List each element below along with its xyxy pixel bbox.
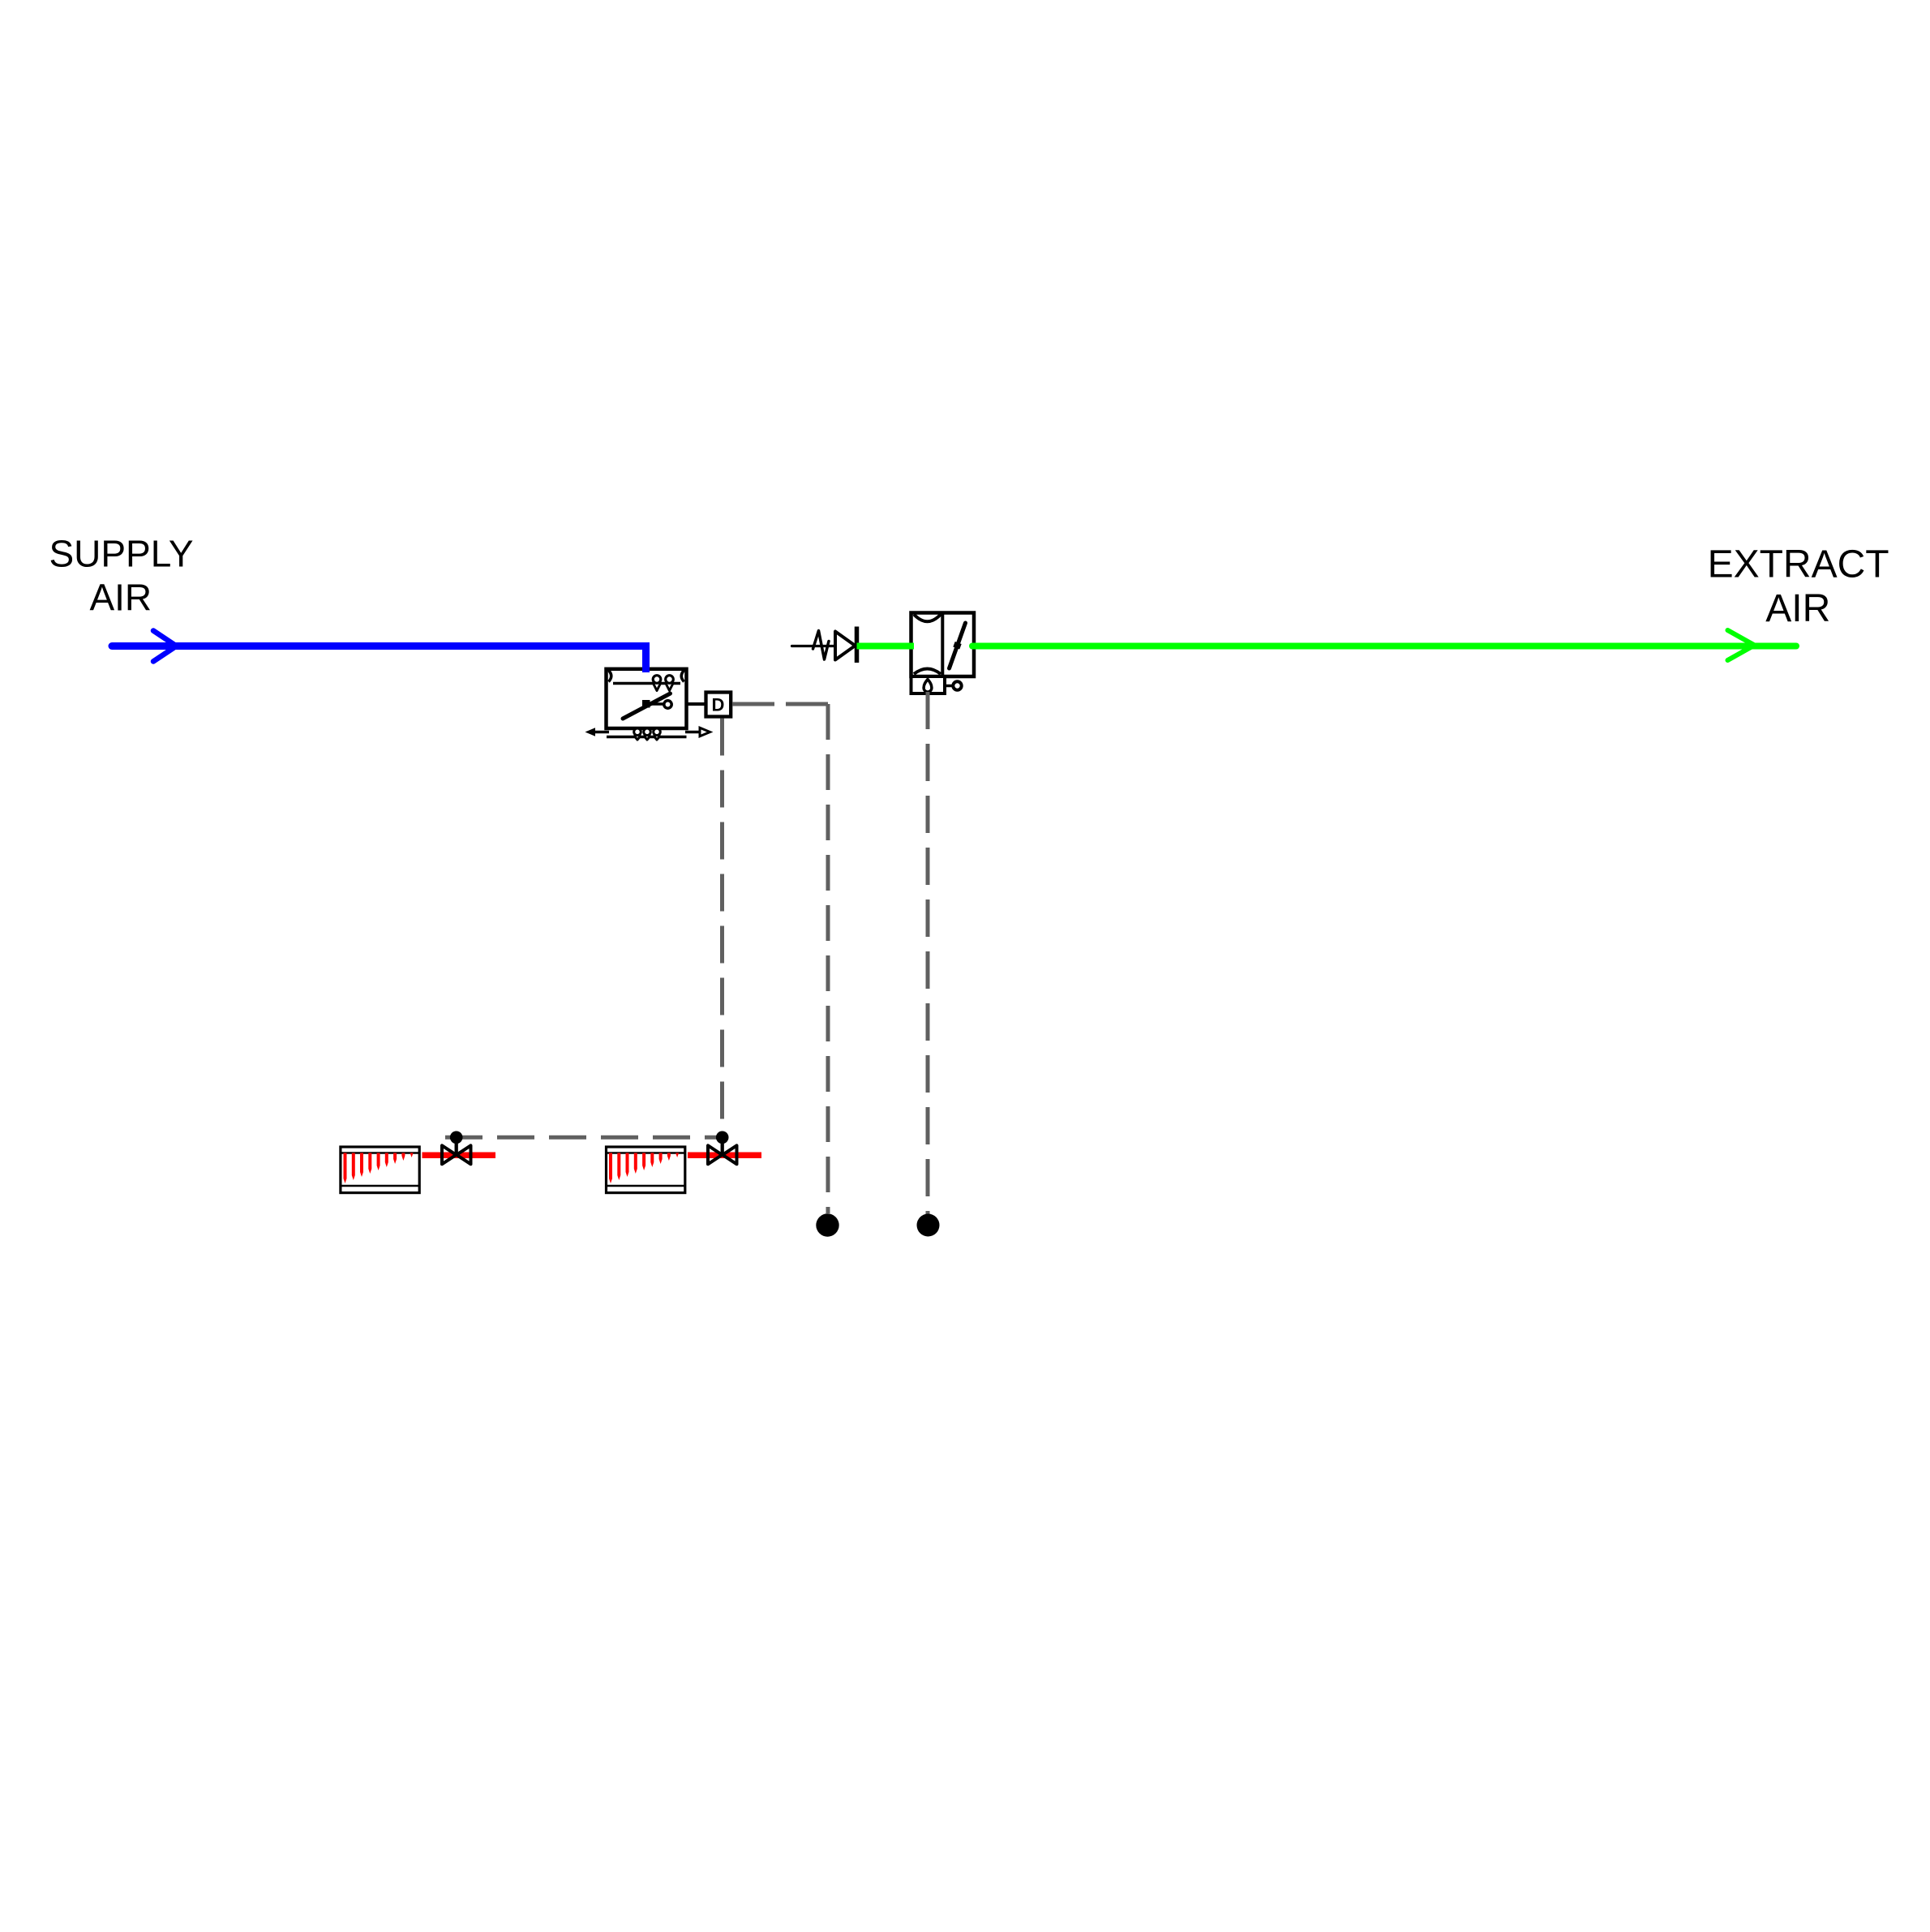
damper lever	[623, 693, 671, 719]
supply air flow arrow	[153, 631, 177, 662]
damper nozzle symbol 2	[666, 676, 674, 691]
radiator valve V2	[708, 1131, 737, 1165]
radiator R1 pipe (red)	[422, 1153, 496, 1159]
check valve seat bar	[855, 627, 860, 663]
control signal dashed wire corner down to sensor 1	[826, 704, 830, 1213]
damper slide arrow right	[685, 728, 710, 736]
radiator R1	[341, 1147, 419, 1193]
room sensor 2 (black dot)	[917, 1214, 940, 1237]
radiator valve V1	[442, 1131, 471, 1165]
extract inlet wire	[792, 645, 835, 647]
svg-text:AIR: AIR	[89, 577, 152, 619]
control signal dashed wire valve V1 to valve V2	[445, 1136, 723, 1140]
backdraft damper (check valve) triangle	[835, 632, 856, 660]
fan unit bottom box	[911, 676, 946, 693]
extract fan unit U2	[911, 613, 975, 677]
condensate drop symbol	[924, 680, 932, 693]
control signal dashed wire D down to valve V2	[720, 719, 724, 1141]
controller box D	[706, 693, 731, 717]
room sensor 1 (black dot)	[816, 1213, 838, 1236]
radiator R2 pipe (red)	[688, 1153, 761, 1159]
damper slide base line	[607, 736, 687, 739]
extract damper blade	[950, 623, 966, 668]
control signal dashed wire D to corner	[732, 702, 828, 706]
extract air duct (green) segment 1	[857, 643, 915, 650]
node label SUPPLY AIR	[49, 533, 193, 619]
node label EXTRACT AIR	[1708, 543, 1889, 631]
VAV supply damper box U1	[607, 669, 687, 728]
extract air flow arrow	[1728, 630, 1755, 660]
wire damper to controller D	[687, 702, 706, 706]
damper nozzle symbol 1	[653, 676, 661, 691]
damper bottom nozzle 2	[644, 728, 651, 740]
svg-text:AIR: AIR	[1765, 587, 1830, 630]
radiator R2	[607, 1147, 685, 1193]
damper bottom nozzle 3	[654, 728, 661, 740]
actuator link	[945, 685, 954, 688]
actuator circle	[953, 681, 961, 689]
damper bottom nozzle 1	[634, 728, 641, 740]
svg-text:EXTRACT: EXTRACT	[1708, 543, 1889, 586]
extract air duct (green) segment 2	[972, 643, 1796, 650]
svg-text:SUPPLY: SUPPLY	[49, 533, 193, 575]
control signal dashed wire fan unit down to sensor 2	[926, 692, 930, 1217]
damper slide arrow left	[585, 728, 610, 736]
supply air duct (blue)	[112, 642, 650, 650]
flexible connection zigzag	[813, 631, 830, 660]
svg-text:D: D	[712, 695, 725, 715]
